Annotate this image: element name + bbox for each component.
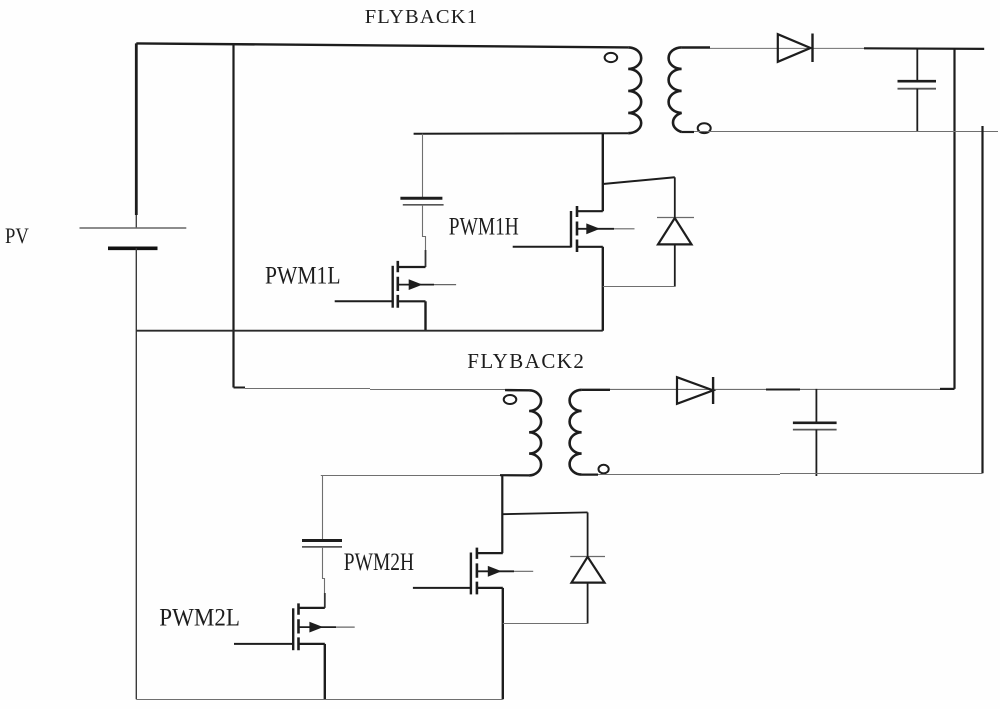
wire T1 secondary top (682, 46, 710, 48)
svg-text:PWM1L: PWM1L (265, 263, 341, 290)
transistor PWM1L arrow (409, 279, 423, 290)
transformer T2 secondary dot (599, 465, 609, 474)
capacitor C2 clamp top plate (302, 539, 342, 542)
capacitor Cout2 top plate (793, 421, 837, 424)
capacitor Cout2 bottom plate (793, 429, 837, 431)
wire T2 secondary top (582, 389, 610, 391)
transformer T1 primary dot (605, 53, 618, 62)
transformer T1 primary winding (628, 47, 641, 133)
svg-text:FLYBACK1: FLYBACK1 (365, 6, 477, 28)
diode Dout1 cathode bar (811, 34, 813, 63)
capacitor C2 clamp lower stub (323, 547, 325, 593)
wire FB1 primary bottom rail (136, 330, 603, 332)
wire D1 bottom to source (603, 286, 675, 288)
transformer T1 secondary dot (698, 123, 711, 133)
diode D2 cathode bar (570, 556, 605, 558)
wire T2 primary bottom (321, 475, 500, 477)
capacitor C2 clamp bottom plate (302, 546, 342, 548)
transistor PWM2H source lead (477, 587, 503, 589)
wire PWM2L source to rail (324, 644, 326, 699)
wire FB1 secondary bottom rail (682, 131, 998, 133)
wire FB2 top-left rail (234, 387, 246, 389)
transistor PWM2L channel (297, 603, 300, 650)
transistor PWM1L channel (396, 261, 399, 308)
transistor PWM1H channel (576, 206, 579, 252)
transformer T2 primary dot (504, 395, 517, 404)
wire D2 bottom to source (503, 623, 588, 625)
svg-text:PV: PV (5, 223, 29, 248)
wire PWM2H drain vertical (501, 475, 503, 553)
transistor PWM1L body line (398, 284, 434, 286)
battery PV long plate (80, 227, 187, 229)
transistor PWM1L drain lead (398, 266, 426, 268)
transistor PWM1H body line (577, 228, 614, 230)
wire PWM1H drain vertical (602, 133, 604, 211)
diode D1 cathode bar (657, 217, 694, 219)
transistor PWM2L source lead (299, 643, 325, 645)
battery PV short plate (108, 247, 158, 251)
wire slant drain to D2 (502, 512, 587, 514)
transistor PWM1H drain lead (577, 210, 603, 212)
wire PWM1L gate lead (335, 300, 393, 302)
capacitor C1 clamp lower stub (423, 205, 426, 250)
wire PWM2H gate lead (413, 587, 471, 589)
diode D2 triangle (572, 557, 605, 583)
transistor PWM1L source lead (398, 300, 426, 302)
capacitor Cout1 top plate (898, 80, 937, 83)
capacitor C1 clamp top plate (400, 197, 442, 200)
wire top rail FB1 (136, 43, 628, 47)
diode Dout1 triangle (778, 34, 811, 62)
wire right vertical A (953, 49, 955, 389)
capacitor Cout1 lower stub (916, 89, 918, 132)
wire T1 primary bottom (414, 132, 629, 135)
diode D2 bottom lead (587, 583, 589, 624)
wire FB2 secondary bottom rail (582, 474, 780, 476)
transistor PWM1L gate bar (392, 266, 394, 308)
wire PWM2L gate lead (234, 643, 293, 645)
diode Dout2 cathode bar (712, 377, 714, 404)
diode D1 triangle (658, 218, 692, 244)
wire bottom rail (136, 699, 503, 701)
svg-text:PWM2L: PWM2L (159, 604, 240, 631)
capacitor Cout2 lower stub (815, 430, 817, 476)
diode D2 top lead (587, 512, 589, 556)
transistor PWM1H gate bar (570, 211, 572, 248)
diode D1 top lead (674, 177, 676, 217)
diode Dout2 triangle (677, 377, 713, 404)
transistor PWM2H drain lead (477, 552, 503, 554)
transistor PWM1H arrow (586, 223, 600, 234)
transistor PWM2L gate bar (292, 608, 294, 650)
svg-text:PWM1H: PWM1H (449, 214, 519, 241)
wire slant drain to D1 (603, 177, 675, 184)
wire bus vertical x233 (232, 44, 234, 388)
transistor PWM1H source lead (577, 246, 603, 248)
capacitor C1 clamp upper stub (422, 134, 424, 197)
capacitor Cout1 upper stub (916, 49, 918, 80)
diode D1 bottom lead (674, 244, 676, 286)
wire PV negative vertical (135, 248, 137, 699)
transistor PWM2L drain lead (299, 607, 325, 609)
transistor PWM2H body line (477, 570, 514, 572)
wire PWM1L source to rail (424, 301, 426, 330)
wire right vertical B (981, 126, 983, 473)
capacitor Cout1 bottom plate (898, 88, 937, 90)
capacitor Cout2 upper stub (815, 389, 817, 422)
svg-text:FLYBACK2: FLYBACK2 (467, 349, 584, 373)
transistor PWM2H gate bar (470, 553, 472, 595)
capacitor C2 clamp upper stub (322, 475, 324, 539)
transistor PWM2L body line (299, 626, 337, 628)
transformer T2 secondary winding (570, 390, 582, 475)
transistor PWM2H arrow (488, 566, 502, 577)
transistor PWM2H channel (476, 548, 479, 595)
wire PWM1H source vertical (602, 247, 604, 331)
wire PV positive vertical (135, 43, 138, 215)
svg-text:PWM2H: PWM2H (344, 549, 414, 576)
transformer T2 primary winding (529, 390, 541, 475)
wire PWM2H source vertical (502, 588, 504, 699)
wire PWM1H gate lead (513, 246, 571, 248)
transistor PWM2L arrow (309, 622, 323, 633)
capacitor C1 clamp bottom plate (403, 204, 444, 206)
transformer T1 secondary winding (669, 47, 682, 132)
